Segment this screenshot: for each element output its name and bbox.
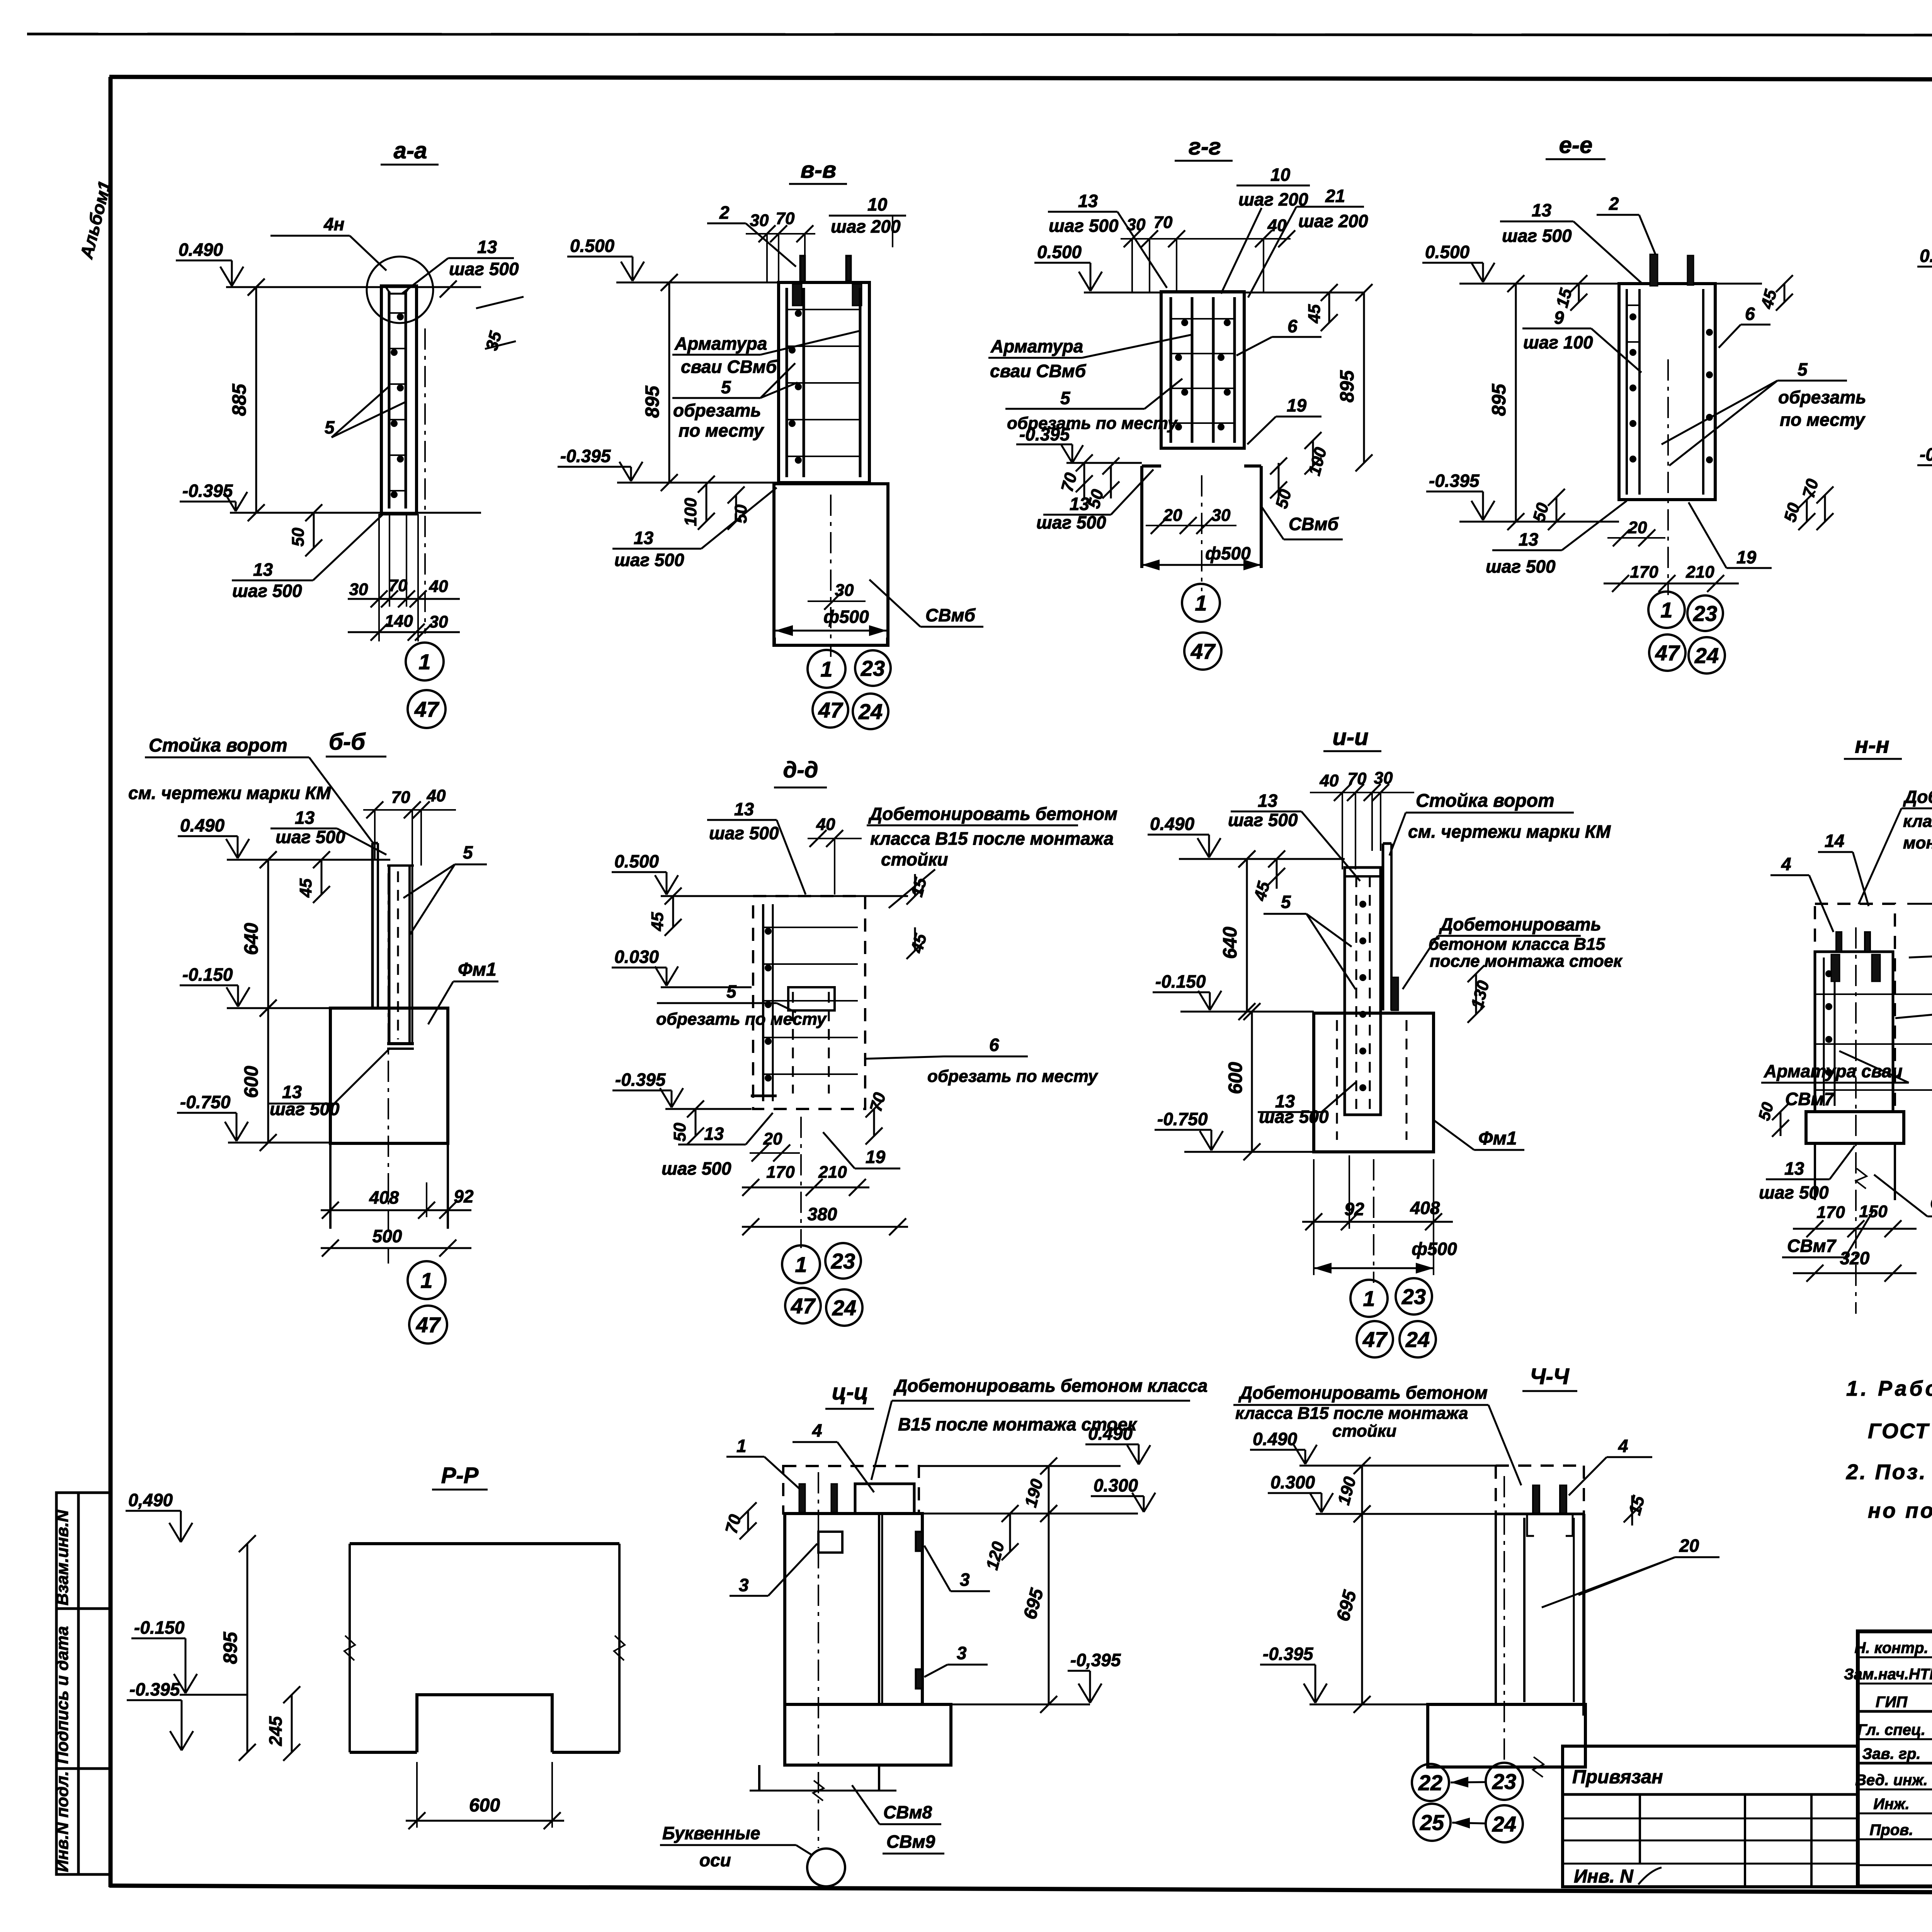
svg-text:1: 1 xyxy=(1363,1286,1375,1311)
svg-text:4: 4 xyxy=(1618,1436,1628,1456)
svg-text:20: 20 xyxy=(1628,518,1647,537)
section c-c level line -0.395 xyxy=(951,1704,1090,1706)
svg-text:СВм9: СВм9 xyxy=(886,1832,935,1852)
svg-text:30: 30 xyxy=(750,211,769,230)
drawing frame left edge xyxy=(109,77,113,1887)
svg-text:19: 19 xyxy=(1287,395,1307,415)
svg-text:1: 1 xyxy=(420,1268,432,1293)
svg-text:2: 2 xyxy=(1609,194,1619,214)
svg-text:обрезать по месту: обрезать по месту xyxy=(656,1010,827,1029)
section ch-ch position circles with arrows xyxy=(1412,1764,1449,1801)
svg-text:13: 13 xyxy=(1784,1158,1804,1179)
svg-text:50: 50 xyxy=(289,527,308,546)
title block privyazan table xyxy=(1563,1746,1858,1887)
section b-b pile cage xyxy=(388,866,391,1043)
section i-i dim 130 xyxy=(1475,974,1477,1014)
section g-g pile cage xyxy=(1161,292,1244,448)
svg-text:шаг 500: шаг 500 xyxy=(276,827,345,847)
svg-text:СВм7: СВм7 xyxy=(1787,1236,1837,1256)
svg-text:100: 100 xyxy=(681,498,700,526)
section e-e axis line xyxy=(1667,359,1669,595)
svg-text:СВмб: СВмб xyxy=(1289,514,1339,534)
svg-text:640: 640 xyxy=(1219,927,1241,959)
svg-text:см. чертежи марки КМ: см. чертежи марки КМ xyxy=(1408,821,1611,842)
svg-text:Стойка ворот: Стойка ворот xyxy=(149,735,287,756)
svg-text:500: 500 xyxy=(372,1226,402,1246)
svg-text:6: 6 xyxy=(1287,316,1298,336)
svg-text:Буквенные: Буквенные xyxy=(662,1823,760,1843)
svg-text:150: 150 xyxy=(1859,1202,1888,1221)
svg-text:стойки: стойки xyxy=(1332,1422,1396,1440)
svg-text:1: 1 xyxy=(820,657,832,681)
svg-text:20: 20 xyxy=(1679,1536,1699,1556)
section ch-ch dim 15 xyxy=(1631,1495,1633,1526)
svg-text:-0.395: -0.395 xyxy=(615,1070,666,1090)
svg-text:10: 10 xyxy=(867,194,888,214)
svg-text:408: 408 xyxy=(1410,1198,1440,1218)
svg-text:22: 22 xyxy=(1418,1770,1442,1795)
svg-text:30: 30 xyxy=(349,580,368,599)
title block outer box xyxy=(1858,1631,1932,1886)
svg-text:б-б: б-б xyxy=(329,729,366,755)
svg-text:20: 20 xyxy=(763,1129,782,1148)
section g-g dim 895 right xyxy=(1363,293,1365,463)
section i-i axis line xyxy=(1373,1159,1374,1283)
svg-text:шаг 500: шаг 500 xyxy=(449,259,519,279)
section a-a dim 50 xyxy=(313,513,315,548)
svg-text:Арматура: Арматура xyxy=(990,336,1083,356)
svg-text:класса В15 после монтажа: класса В15 после монтажа xyxy=(1235,1404,1468,1423)
section c-c small plates and leaders 3 xyxy=(818,1532,842,1553)
svg-text:170: 170 xyxy=(1630,563,1658,582)
svg-text:640: 640 xyxy=(240,923,262,955)
section v-v pile cage xyxy=(779,282,869,483)
svg-text:13: 13 xyxy=(253,560,273,580)
svg-text:47: 47 xyxy=(414,697,440,721)
svg-text:Вед. инж.: Вед. инж. xyxy=(1855,1772,1928,1789)
svg-text:Ось сваи: Ось сваи xyxy=(1930,1193,1932,1214)
svg-text:Р-Р: Р-Р xyxy=(441,1463,479,1488)
section ch-ch dashed box xyxy=(1496,1464,1584,1467)
svg-text:13: 13 xyxy=(1258,791,1278,811)
svg-text:0.500: 0.500 xyxy=(1425,242,1470,262)
section n-n foundation xyxy=(1806,1112,1904,1143)
svg-text:23: 23 xyxy=(1492,1769,1516,1794)
svg-text:0.300: 0.300 xyxy=(1094,1475,1138,1495)
svg-text:0,490: 0,490 xyxy=(128,1490,173,1510)
svg-text:895: 895 xyxy=(1488,383,1510,416)
svg-text:23: 23 xyxy=(1693,601,1717,626)
section n-n anchor bolts xyxy=(1836,932,1842,952)
svg-text:шаг 100: шаг 100 xyxy=(1523,332,1593,352)
svg-text:Инж.: Инж. xyxy=(1873,1796,1910,1813)
svg-text:0.490: 0.490 xyxy=(1088,1423,1133,1444)
svg-text:-0.395: -0.395 xyxy=(1019,424,1070,444)
svg-text:СВм8: СВм8 xyxy=(883,1802,932,1822)
section v-v axis line xyxy=(830,495,832,657)
section v-v position circles 1 23 47 24 xyxy=(808,650,845,688)
sheet outer top border line xyxy=(27,34,1932,36)
svg-text:в-в: в-в xyxy=(801,157,836,183)
svg-text:47: 47 xyxy=(1190,639,1216,663)
svg-text:Добетонировать бетоном класса: Добетонировать бетоном класса xyxy=(893,1376,1207,1396)
svg-text:13: 13 xyxy=(634,528,654,548)
section b-b dim 45 xyxy=(321,860,323,895)
section ch-ch bolt hooks xyxy=(1527,1514,1534,1536)
svg-text:40: 40 xyxy=(429,577,448,596)
svg-text:70: 70 xyxy=(1154,213,1173,232)
section v-v top level line xyxy=(616,282,869,284)
svg-text:5: 5 xyxy=(325,417,335,437)
section e-e top level line xyxy=(1459,283,1619,285)
svg-text:600: 600 xyxy=(1225,1062,1246,1094)
section v-v foundation pile SVm6 xyxy=(774,484,888,645)
svg-text:70: 70 xyxy=(389,576,408,595)
section ch-ch dim 695 xyxy=(1361,1514,1363,1704)
svg-text:3: 3 xyxy=(957,1643,967,1663)
svg-text:-0.395: -0.395 xyxy=(1920,444,1932,464)
svg-text:но по ГОСТ 14098-85, тип К1: но по ГОСТ 14098-85, тип К1- Кт. xyxy=(1868,1498,1932,1522)
section c-c level line 0.300 xyxy=(923,1513,1138,1515)
svg-text:408: 408 xyxy=(369,1187,399,1207)
svg-text:13: 13 xyxy=(1078,191,1098,211)
svg-text:0.030: 0.030 xyxy=(614,947,659,967)
svg-text:Взам.инв.N: Взам.инв.N xyxy=(53,1509,72,1605)
section g-g dims 70 50 left xyxy=(1083,463,1085,498)
svg-text:-0.150: -0.150 xyxy=(134,1617,185,1638)
section c-c dim 190 xyxy=(1048,1466,1050,1514)
svg-text:3: 3 xyxy=(960,1570,970,1590)
section g-g foundation xyxy=(1140,466,1143,568)
section d-d axis line xyxy=(800,1117,802,1248)
section i-i dim 600 xyxy=(1251,1012,1253,1152)
svg-text:шаг 500: шаг 500 xyxy=(232,581,302,601)
svg-text:5: 5 xyxy=(1060,388,1071,408)
drawing frame bottom edge xyxy=(109,1886,1932,1895)
svg-text:Зам.нач.НТК: Зам.нач.НТК xyxy=(1844,1666,1932,1683)
section r-r slab outline xyxy=(350,1542,619,1545)
svg-text:5: 5 xyxy=(1281,892,1291,912)
svg-text:6: 6 xyxy=(989,1035,999,1055)
svg-text:4н: 4н xyxy=(323,214,344,234)
section g-g position circles xyxy=(1182,584,1220,622)
svg-text:-0.395: -0.395 xyxy=(1263,1644,1314,1664)
svg-text:45: 45 xyxy=(296,878,315,898)
section d-d mid level line xyxy=(661,986,752,988)
svg-text:5: 5 xyxy=(1798,359,1808,379)
svg-text:13: 13 xyxy=(295,808,315,828)
svg-text:обрезать: обрезать xyxy=(673,400,761,420)
svg-text:50: 50 xyxy=(731,504,750,523)
svg-text:1: 1 xyxy=(736,1436,747,1456)
svg-text:шаг 500: шаг 500 xyxy=(1049,216,1119,236)
svg-text:140: 140 xyxy=(384,612,413,631)
section g-g axis line xyxy=(1201,475,1202,591)
section b-b top level line xyxy=(227,859,390,861)
svg-text:-0.395: -0.395 xyxy=(129,1679,180,1699)
svg-text:-0.750: -0.750 xyxy=(1157,1109,1208,1129)
section a-a lower level line xyxy=(230,512,481,514)
svg-text:шаг 500: шаг 500 xyxy=(1502,226,1572,246)
section d-d cage dashed box xyxy=(753,896,865,1109)
svg-text:сваи СВмб: сваи СВмб xyxy=(681,357,777,377)
svg-text:2: 2 xyxy=(719,202,730,223)
section c-c anchor stubs xyxy=(799,1484,805,1512)
svg-text:сваи СВмб: сваи СВмб xyxy=(990,361,1087,381)
section c-c dim 120 xyxy=(1009,1514,1011,1552)
section ch-ch main column xyxy=(1495,1514,1497,1704)
svg-text:н-н: н-н xyxy=(1855,733,1889,758)
svg-text:СВмб: СВмб xyxy=(925,605,976,625)
section d-d lower level line xyxy=(665,1108,752,1110)
svg-text:шаг 500: шаг 500 xyxy=(1759,1182,1829,1202)
svg-text:-0,395: -0,395 xyxy=(1070,1650,1121,1670)
svg-text:-0.150: -0.150 xyxy=(1155,971,1206,992)
svg-text:50: 50 xyxy=(670,1122,689,1141)
drawing frame top edge xyxy=(109,77,1932,80)
svg-text:ф500: ф500 xyxy=(1412,1239,1457,1259)
svg-text:23: 23 xyxy=(861,656,885,680)
svg-text:ГИП: ГИП xyxy=(1876,1694,1908,1711)
svg-text:Пров.: Пров. xyxy=(1870,1821,1913,1838)
svg-text:380: 380 xyxy=(808,1204,837,1224)
svg-text:4: 4 xyxy=(812,1420,822,1440)
svg-text:0.490: 0.490 xyxy=(1253,1429,1298,1449)
title block signature rows xyxy=(1858,1656,1932,1658)
svg-text:0.490: 0.490 xyxy=(1150,814,1195,834)
svg-text:0.490: 0.490 xyxy=(1920,246,1932,266)
svg-text:47: 47 xyxy=(1655,641,1680,665)
svg-text:Инв. N: Инв. N xyxy=(1574,1866,1634,1887)
section e-e inner bars xyxy=(1626,289,1628,495)
svg-text:320: 320 xyxy=(1840,1248,1870,1268)
section e-e dim 895 xyxy=(1515,284,1517,522)
section c-c dim 695 xyxy=(1048,1514,1050,1704)
svg-text:Привязан: Привязан xyxy=(1572,1767,1663,1787)
svg-text:24: 24 xyxy=(1405,1327,1430,1352)
section g-g dim 50 100 right xyxy=(1278,463,1280,498)
section n-n dim 50 xyxy=(1780,1112,1782,1136)
svg-text:д-д: д-д xyxy=(783,757,818,782)
section i-i foundation xyxy=(1314,1013,1434,1152)
svg-text:30: 30 xyxy=(429,612,448,631)
svg-text:5: 5 xyxy=(726,981,737,1002)
svg-text:класса В15 после монтажа: класса В15 после монтажа xyxy=(870,828,1114,849)
svg-text:Добетонировать бетоном: Добетонировать бетоном xyxy=(1903,787,1932,807)
section a-a position circle 47 xyxy=(408,690,446,728)
svg-text:5: 5 xyxy=(463,842,473,862)
section v-v dims 100 50 xyxy=(706,484,707,521)
svg-text:13: 13 xyxy=(477,237,497,257)
section ch-ch axis line xyxy=(1503,1476,1505,1764)
svg-text:монтажа стоек: монтажа стоек xyxy=(1903,833,1932,852)
section d-d dim 70 right xyxy=(873,1109,875,1136)
svg-text:600: 600 xyxy=(469,1795,500,1816)
section c-c dim 70 left xyxy=(747,1511,749,1531)
left margin column boxes xyxy=(56,1493,111,1874)
section ch-ch level line 0.300 xyxy=(1316,1513,1496,1515)
section a-a dim 885 xyxy=(255,287,257,513)
section b-b axis line xyxy=(388,873,389,1264)
section n-n anchor plates hatched xyxy=(1831,954,1840,981)
svg-text:и-и: и-и xyxy=(1332,724,1368,750)
section d-d top level line xyxy=(661,895,908,897)
svg-text:шаг 200: шаг 200 xyxy=(831,216,901,236)
svg-text:19: 19 xyxy=(866,1147,886,1167)
svg-text:Добетонировать бетоном: Добетонировать бетоном xyxy=(868,804,1117,824)
svg-text:бетоном класса В15: бетоном класса В15 xyxy=(1429,935,1605,954)
section ch-ch level line 0.490 xyxy=(1299,1465,1496,1467)
svg-text:1. Рабочую арматуру сваи поз.6: 1. Рабочую арматуру сваи поз.6,9 привари… xyxy=(1846,1376,1932,1400)
svg-text:245: 245 xyxy=(265,1716,286,1746)
section b-b dim 640 xyxy=(267,860,269,1008)
section c-c foundation xyxy=(785,1704,951,1765)
svg-text:30: 30 xyxy=(1212,506,1231,525)
svg-text:шаг 500: шаг 500 xyxy=(1486,556,1556,577)
svg-text:е-е: е-е xyxy=(1559,132,1593,158)
section n-n pile cage xyxy=(1815,952,1893,1112)
svg-text:170: 170 xyxy=(1816,1203,1845,1222)
svg-text:14: 14 xyxy=(1825,831,1844,851)
svg-text:24: 24 xyxy=(1492,1812,1516,1836)
section r-r pedestal xyxy=(417,1695,552,1752)
svg-text:13: 13 xyxy=(734,799,754,819)
section d-d position circles xyxy=(782,1245,820,1283)
svg-text:13: 13 xyxy=(1070,494,1090,514)
svg-text:0.490: 0.490 xyxy=(179,240,223,260)
svg-text:Арматура: Арматура xyxy=(674,333,767,354)
svg-text:оси: оси xyxy=(699,1850,731,1870)
svg-text:2. Поз. 13,10,14 приварить к: 2. Поз. 13,10,14 приварить к поз. 5,7,8 … xyxy=(1846,1460,1932,1484)
svg-text:40: 40 xyxy=(1320,771,1339,790)
section g-g top level line xyxy=(1084,292,1364,294)
svg-text:895: 895 xyxy=(641,385,663,418)
svg-text:-0.395: -0.395 xyxy=(560,446,611,466)
svg-text:13: 13 xyxy=(1519,529,1539,549)
section n-n dashed outline xyxy=(1815,904,1895,1112)
section e-e anchor plates top xyxy=(1650,254,1658,286)
section ch-ch dim 190 xyxy=(1361,1466,1363,1514)
section d-d inner stub xyxy=(788,987,835,1010)
svg-text:895: 895 xyxy=(219,1631,241,1664)
svg-text:а-а: а-а xyxy=(394,138,427,163)
svg-text:47: 47 xyxy=(1362,1327,1388,1352)
section b-b dim 600 xyxy=(267,1008,269,1143)
svg-text:23: 23 xyxy=(1401,1284,1426,1309)
svg-text:Зав. гр.: Зав. гр. xyxy=(1862,1745,1920,1762)
svg-text:Стойка ворот: Стойка ворот xyxy=(1416,791,1554,811)
svg-text:ц-ц: ц-ц xyxy=(832,1379,868,1405)
svg-text:45: 45 xyxy=(648,912,667,931)
svg-text:шаг 500: шаг 500 xyxy=(1228,810,1298,830)
section ch-ch level line -0.395 xyxy=(1310,1704,1428,1706)
section e-e inner dots xyxy=(1629,313,1636,320)
svg-text:класса В15 после: класса В15 после xyxy=(1903,812,1932,831)
section v-v lower level line xyxy=(617,482,779,484)
svg-text:600: 600 xyxy=(240,1066,262,1098)
section i-i dim 45 xyxy=(1276,859,1278,889)
svg-text:шаг 500: шаг 500 xyxy=(1036,512,1106,532)
svg-text:г-г: г-г xyxy=(1189,134,1221,160)
svg-text:47: 47 xyxy=(791,1294,816,1318)
svg-text:СВм7: СВм7 xyxy=(1785,1089,1835,1109)
section c-c level line 0.490 xyxy=(919,1465,1121,1467)
svg-text:24: 24 xyxy=(858,699,883,724)
section v-v anchor plates hatched xyxy=(793,284,802,306)
section c-c main column xyxy=(785,1514,922,1704)
section r-r dim 245 xyxy=(291,1695,293,1752)
svg-text:70: 70 xyxy=(776,209,795,228)
svg-text:шаг 500: шаг 500 xyxy=(614,550,684,570)
section d-d dim 50 xyxy=(695,1109,697,1136)
svg-text:шаг 500: шаг 500 xyxy=(270,1099,340,1119)
svg-text:Добетонировать: Добетонировать xyxy=(1439,914,1601,934)
section b-b position circles xyxy=(408,1261,446,1299)
section a-a detail circle xyxy=(367,257,433,323)
section ch-ch anchor bolts xyxy=(1533,1485,1539,1514)
section i-i dim 640 xyxy=(1246,859,1248,1012)
section i-i gate post xyxy=(1382,844,1384,1010)
svg-text:6: 6 xyxy=(1745,304,1755,324)
section b-b foundation xyxy=(330,1008,448,1143)
section i-i hatched collar xyxy=(1391,977,1398,1010)
svg-text:-0.395: -0.395 xyxy=(1429,471,1480,491)
svg-text:47: 47 xyxy=(818,698,844,722)
section a-a bottom extension lines xyxy=(378,514,380,641)
svg-text:Гл. спец.: Гл. спец. xyxy=(1857,1721,1925,1738)
svg-text:4: 4 xyxy=(1781,854,1791,874)
svg-text:10: 10 xyxy=(1270,165,1291,185)
svg-text:1: 1 xyxy=(418,650,430,674)
svg-text:Фм1: Фм1 xyxy=(1478,1128,1517,1149)
section a-a position circle 1 xyxy=(406,643,444,680)
svg-text:-0.750: -0.750 xyxy=(180,1092,231,1112)
section e-e dim 45 right xyxy=(1784,284,1786,302)
svg-text:0.300: 0.300 xyxy=(1270,1472,1315,1492)
svg-text:ГОСТ 14098-85, тип Н1- Рш , д: ГОСТ 14098-85, тип Н1- Рш , длина шва ℓ … xyxy=(1868,1419,1932,1443)
section c-c axis line and circle xyxy=(818,1472,819,1848)
svg-text:Ч-Ч: Ч-Ч xyxy=(1530,1364,1570,1389)
svg-text:стойки: стойки xyxy=(881,849,948,869)
svg-text:1: 1 xyxy=(1195,591,1207,615)
section i-i foundation top line xyxy=(1180,1011,1314,1013)
section i-i pile cage xyxy=(1345,867,1381,1115)
svg-text:0.490: 0.490 xyxy=(180,815,225,835)
section e-e lower level line xyxy=(1459,521,1619,523)
svg-text:шаг 500: шаг 500 xyxy=(662,1158,731,1179)
section n-n level line 0.490 xyxy=(1907,903,1932,905)
section b-b foundation level line xyxy=(227,1007,330,1009)
svg-text:92: 92 xyxy=(454,1186,474,1206)
section b-b gate post xyxy=(371,843,374,1008)
svg-text:Подпись и дата: Подпись и дата xyxy=(53,1626,72,1764)
svg-text:21: 21 xyxy=(1325,186,1345,206)
svg-text:0.500: 0.500 xyxy=(570,236,615,256)
svg-text:шаг 500: шаг 500 xyxy=(709,823,779,843)
svg-text:70: 70 xyxy=(391,788,410,807)
svg-text:по месту: по месту xyxy=(1780,410,1866,430)
svg-text:-0.150: -0.150 xyxy=(182,964,233,985)
svg-text:Добетонировать бетоном: Добетонировать бетоном xyxy=(1238,1383,1488,1403)
svg-text:0.500: 0.500 xyxy=(614,851,659,871)
section r-r dim 895 xyxy=(247,1544,248,1752)
svg-text:30: 30 xyxy=(1374,769,1393,787)
svg-text:25: 25 xyxy=(1420,1810,1444,1835)
section i-i bottom level line xyxy=(1184,1151,1314,1153)
section n-n axis line xyxy=(1855,927,1857,1314)
svg-text:13: 13 xyxy=(704,1124,724,1144)
svg-text:19: 19 xyxy=(1736,547,1757,567)
